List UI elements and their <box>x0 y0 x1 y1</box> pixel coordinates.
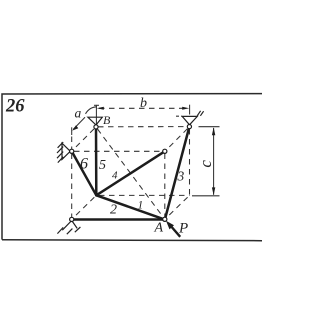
svg-text:1: 1 <box>138 199 144 211</box>
svg-text:2: 2 <box>110 202 117 217</box>
svg-text:4: 4 <box>112 170 118 182</box>
svg-text:A: A <box>154 220 164 235</box>
svg-text:c: c <box>196 160 215 168</box>
svg-text:3: 3 <box>177 169 185 184</box>
svg-text:P: P <box>178 221 188 237</box>
svg-text:5: 5 <box>99 158 106 173</box>
svg-text:b: b <box>140 96 147 111</box>
svg-text:26: 26 <box>5 96 25 116</box>
svg-text:a: a <box>75 105 82 120</box>
svg-text:6: 6 <box>80 156 88 173</box>
svg-text:B: B <box>103 113 111 127</box>
